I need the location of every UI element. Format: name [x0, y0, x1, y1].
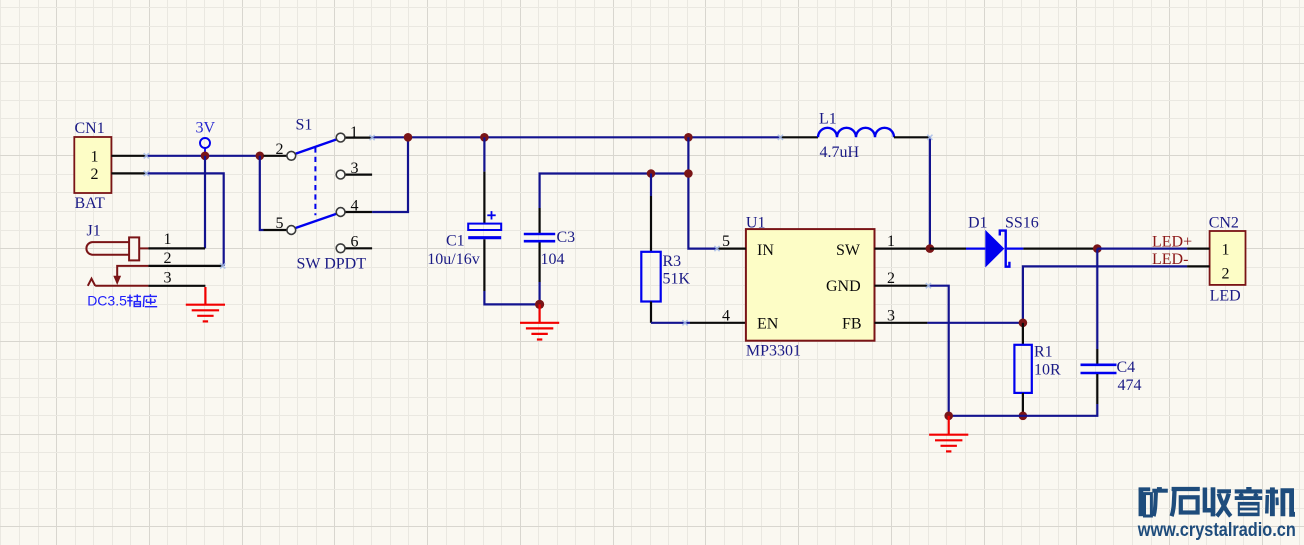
wire LED+ node to CN2 pin1 [1097, 248, 1187, 250]
connector CN2 pin 2 line [1187, 265, 1210, 267]
dc jack J1 pin1 inner lead [139, 247, 148, 249]
svg-text:10u/16v: 10u/16v [427, 251, 479, 268]
wire GND pin to bottom ground [928, 286, 948, 416]
wire EN row [651, 322, 690, 324]
dc jack J1 pin 3 line [148, 285, 205, 287]
ic U1 pin 2 line GND [875, 285, 929, 287]
junction SW node [926, 244, 935, 253]
capacitor C1 top plate [468, 224, 501, 230]
ic U1 pin 1 line SW [875, 248, 930, 250]
svg-text:SW DPDT: SW DPDT [297, 256, 367, 273]
connector CN1 pin 1 line [111, 155, 146, 157]
svg-text:6: 6 [351, 234, 359, 251]
svg-text:U1: U1 [746, 214, 766, 231]
svg-text:CN2: CN2 [1209, 214, 1239, 231]
diode D1 cathode lead [1007, 248, 1024, 250]
junction rail2 at R3 [647, 169, 656, 178]
resistor R3 bottom pin to EN row [650, 302, 652, 323]
switch S1 pin 2 contact circle [287, 151, 296, 160]
capacitor C4 top pin [1096, 349, 1098, 364]
switch S1 pin 4 stub [345, 211, 372, 213]
svg-text:D1: D1 [968, 215, 988, 232]
svg-text:3: 3 [351, 160, 359, 177]
junction LED+ node [1093, 244, 1102, 253]
svg-text:R3: R3 [663, 253, 682, 270]
wire LED- row from FB node [1023, 266, 1187, 322]
svg-text:51K: 51K [663, 271, 691, 288]
diode D1 schottky cathode bar [1000, 231, 1010, 267]
svg-text:R1: R1 [1034, 343, 1053, 360]
switch S1 pin 1 stub [345, 137, 372, 139]
svg-text:GND: GND [826, 278, 861, 295]
switch S1 pin 3 contact circle [336, 170, 345, 179]
wire rail2 C3 to IN drop [540, 174, 689, 209]
dc jack J1 barrel [86, 242, 129, 255]
switch S1 throw arm pole B [296, 214, 337, 228]
ground symbol at U1 GND [929, 416, 968, 452]
connector CN2 body [1210, 231, 1246, 285]
switch S1 pin 3 stub [345, 174, 372, 176]
resistor R3 body [641, 252, 660, 302]
dc jack J1 value label DC3.5 insert-socket (CJK drawn as paths) [87, 293, 157, 309]
svg-text:CN1: CN1 [75, 120, 105, 137]
dc jack J1 pin 2 line [148, 265, 222, 267]
connector CN2 pin 1 line [1187, 248, 1210, 250]
svg-text:3V: 3V [196, 120, 216, 137]
svg-text:C3: C3 [557, 229, 576, 246]
wire C1 bottom to ground node [484, 291, 539, 304]
switch S1 pin 1 contact circle [336, 133, 345, 142]
switch S1 pin 6 stub [345, 247, 372, 249]
diode D1 triangle [985, 230, 1004, 268]
wire C4 top lead [1096, 249, 1098, 349]
wire FB to R1 top node [927, 322, 1023, 324]
resistor R1 body [1014, 345, 1031, 393]
svg-text:FB: FB [842, 316, 862, 333]
connector CN1 body [74, 137, 111, 193]
svg-text:LED: LED [1210, 287, 1241, 304]
svg-text:LED+: LED+ [1152, 233, 1192, 250]
svg-text:1: 1 [1222, 241, 1230, 258]
junction rail2 at IN drop [684, 169, 693, 178]
wire C1 top lead upper [483, 137, 485, 171]
wire S1 pin1 to L1 top rail [372, 136, 780, 138]
svg-text:C4: C4 [1117, 359, 1136, 376]
svg-text:10R: 10R [1034, 361, 1061, 378]
switch S1 pin 5 stub [264, 229, 287, 231]
wire top rail drop to rail2 and IN [688, 137, 717, 248]
svg-text:4: 4 [722, 307, 730, 324]
wire vertex ticks [144, 135, 933, 326]
svg-text:IN: IN [757, 242, 774, 259]
junction R1 bottom node [1019, 412, 1028, 421]
svg-text:4.7uH: 4.7uH [820, 144, 860, 161]
dc jack J1 pin2 contact [117, 266, 148, 276]
switch S1 throw arm pole A [296, 139, 337, 153]
watermark logo kuang-shi-shou-yin-ji drawn as paths [1139, 487, 1295, 516]
ic U1 pin 5 line [717, 248, 746, 250]
svg-text:3: 3 [164, 269, 172, 286]
inductor L1 left pin [780, 136, 818, 138]
junction top rail at S1 pin4 riser [404, 133, 413, 142]
ic U1 pin 3 line FB [875, 322, 928, 324]
capacitor C4 top plate [1081, 363, 1117, 366]
capacitor C1 bottom plate [468, 236, 501, 239]
capacitor C4 bottom plate [1081, 372, 1117, 375]
junction at S1 pin2 branch [255, 152, 264, 161]
svg-text:4: 4 [351, 197, 359, 214]
svg-text:1: 1 [164, 231, 172, 248]
dc jack J1 pin 1 line [148, 247, 205, 249]
wire L1 down to SW node [929, 137, 931, 248]
svg-text:SW: SW [836, 242, 861, 259]
wire D1 cathode to LED+ node [1023, 248, 1097, 250]
svg-text:1: 1 [887, 233, 895, 250]
capacitor C1 plus sign [487, 211, 495, 219]
svg-text:MP3301: MP3301 [746, 343, 801, 360]
capacitor C3 top plate [524, 233, 555, 236]
power port 3V circle [200, 138, 210, 156]
svg-text:2: 2 [887, 270, 895, 287]
connector CN1 pin 2 line [111, 172, 146, 174]
wire 3V node down to J1 pin1 [204, 156, 206, 249]
switch S1 pin 5 contact circle [287, 226, 296, 235]
svg-text:L1: L1 [819, 111, 837, 128]
svg-text:www.crystalradio.cn: www.crystalradio.cn [1137, 520, 1296, 541]
wire CN1 pin2 to J1 pin2 riser [146, 173, 223, 266]
switch S1 pin 6 contact circle [336, 244, 345, 253]
switch S1 pin 4 contact circle [336, 208, 345, 217]
capacitor C1 bottom pin [483, 239, 485, 291]
svg-text:DC3.5: DC3.5 [87, 293, 127, 309]
junction C1 C3 ground node [535, 300, 544, 309]
svg-text:5: 5 [276, 215, 284, 232]
wire S1 pin4 riser to top rail [372, 137, 408, 212]
svg-text:BAT: BAT [75, 195, 105, 212]
dc jack J1 collar [129, 237, 139, 260]
junction at 3V node [201, 152, 210, 161]
inductor L1 coil [818, 128, 894, 138]
switch S1 pin 2 stub [264, 155, 287, 157]
svg-text:2: 2 [164, 250, 172, 267]
junction top rail at C1 [480, 133, 489, 142]
svg-text:EN: EN [757, 316, 779, 333]
wire bottom rail [949, 404, 1098, 416]
ic U1 body [746, 229, 875, 341]
diode D1 anode lead [966, 248, 985, 250]
svg-text:S1: S1 [296, 117, 313, 134]
svg-text:2: 2 [276, 141, 284, 158]
ground symbol at J1 [186, 287, 225, 321]
junction FB R1 node [1019, 319, 1028, 328]
svg-text:C1: C1 [446, 232, 465, 249]
capacitor C3 bottom pin [538, 243, 540, 283]
capacitor C3 bottom plate [524, 240, 555, 243]
svg-text:104: 104 [541, 251, 565, 268]
switch S1 gang dashed link [314, 147, 316, 215]
resistor R1 bottom pin [1022, 393, 1024, 416]
svg-text:J1: J1 [87, 223, 101, 240]
svg-text:474: 474 [1118, 377, 1142, 394]
capacitor C1 top pin [483, 172, 485, 224]
wire CN1 pin1 to 3V node [146, 155, 259, 157]
wire S1 pin2 branch down to pin5 [260, 156, 264, 230]
svg-text:2: 2 [91, 166, 99, 183]
ground symbol at C1 C3 [520, 304, 559, 339]
junction bottom ground node [944, 412, 953, 421]
resistor R1 top pin [1022, 323, 1024, 345]
svg-text:SS16: SS16 [1005, 215, 1039, 232]
svg-text:1: 1 [91, 149, 99, 166]
wire SW node to D1 anode [930, 248, 966, 250]
dc jack J1 pin2 arrow [113, 276, 121, 285]
svg-text:2: 2 [1222, 265, 1230, 282]
svg-text:1: 1 [350, 124, 358, 141]
capacitor C4 bottom pin [1096, 374, 1098, 404]
inductor L1 right pin [894, 136, 930, 138]
dc jack J1 pin3 contact [88, 279, 149, 286]
junction top rail at IN drop [684, 133, 693, 142]
resistor R3 top pin [650, 174, 652, 197]
